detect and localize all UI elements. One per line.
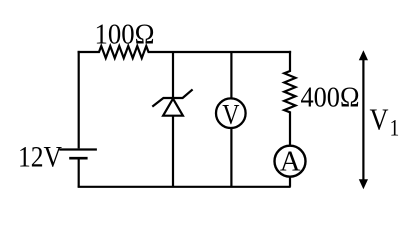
svg-text:V: V xyxy=(370,101,390,136)
svg-text:V: V xyxy=(222,99,239,131)
svg-text:12V: 12V xyxy=(18,140,62,173)
svg-text:A: A xyxy=(280,147,301,178)
svg-text:100Ω: 100Ω xyxy=(95,18,155,50)
svg-text:1: 1 xyxy=(390,116,400,141)
svg-text:400Ω: 400Ω xyxy=(301,83,360,114)
